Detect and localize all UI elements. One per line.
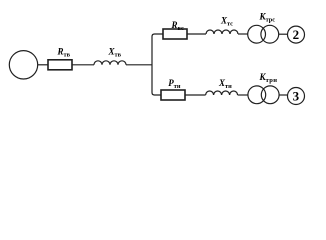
svg-text:2: 2: [293, 27, 300, 42]
svg-text:3: 3: [293, 89, 300, 104]
